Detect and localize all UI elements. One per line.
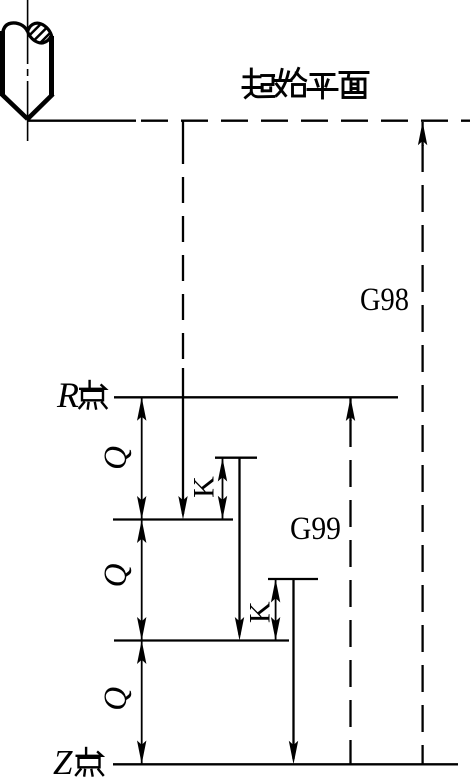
svg-text:G99: G99 [290, 511, 341, 547]
始 [275, 69, 306, 97]
svg-text:Q: Q [98, 446, 134, 470]
second infeed vertical with arrow [238, 458, 240, 635]
Q dim line seg3 [141, 641, 143, 765]
drill flute top left arc [3, 23, 28, 35]
svg-text:K: K [188, 476, 221, 498]
点 after R [80, 381, 107, 409]
initial plane line (solid then dashed) [28, 120, 136, 122]
peck1 depth line [113, 518, 233, 520]
drill flute hatching [30, 25, 51, 43]
drill body left edge [0, 31, 5, 96]
svg-text:Q: Q [98, 563, 134, 587]
peck2 depth line [114, 639, 289, 641]
first infeed dashed line [182, 121, 184, 164]
面 [340, 73, 368, 98]
drill flute top right lens [28, 23, 52, 43]
drill centerline [27, 0, 29, 141]
平 [308, 75, 337, 99]
K dim line 1 [222, 458, 224, 519]
svg-text:K: K [244, 601, 277, 623]
drill body right edge [49, 36, 54, 96]
点 after Z [76, 748, 103, 776]
drill tip left [2, 94, 28, 119]
G99 return dashed line [349, 420, 351, 764]
svg-text:R: R [56, 375, 79, 415]
Q dim line seg2 [141, 520, 143, 641]
third infeed start line [268, 578, 318, 580]
Z plane line [113, 763, 458, 765]
svg-text:G98: G98 [360, 282, 409, 318]
first infeed solid line with arrow [182, 368, 184, 514]
drill tip right [28, 94, 53, 119]
svg-text:Q: Q [98, 687, 134, 711]
third infeed vertical with arrow [292, 579, 294, 759]
Q dim line seg1 [141, 397, 143, 520]
R plane line [114, 396, 398, 398]
second infeed start line [215, 457, 257, 459]
起 [243, 69, 274, 98]
svg-text:Z: Z [53, 743, 73, 778]
initial plane label 起始平面 (hand-drawn glyphs) [243, 69, 368, 99]
K dim line 2 [275, 579, 277, 641]
G98 return dashed line [421, 145, 423, 764]
